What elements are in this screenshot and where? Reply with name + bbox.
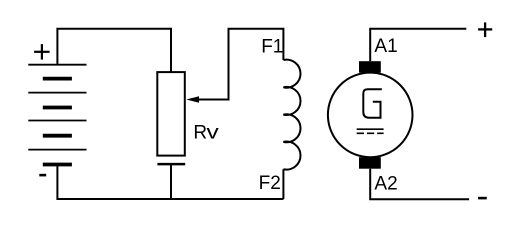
output minus label xyxy=(478,197,487,200)
wire armature A1 to output plus xyxy=(370,29,466,61)
generator G1 body circle xyxy=(328,73,413,158)
svg-text:F1: F1 xyxy=(261,36,283,57)
generator DC symbol solid line xyxy=(357,128,384,130)
generator bottom brush block xyxy=(359,157,381,169)
field winding L1 (shunt field coil) xyxy=(283,60,300,170)
bottom rail wire xyxy=(57,165,283,200)
potentiometer bottom terminal bar xyxy=(157,163,185,166)
generator letter G xyxy=(363,89,382,117)
svg-text:A2: A2 xyxy=(374,174,397,195)
svg-text:A1: A1 xyxy=(374,36,397,57)
wire potentiometer bottom to bottom rail xyxy=(170,164,172,199)
battery minus label xyxy=(39,174,46,177)
potentiometer Rv body xyxy=(157,72,185,156)
wire field winding F2 to bottom rail xyxy=(282,169,284,199)
battery plus label xyxy=(34,44,50,60)
wire wiper to field winding F1 xyxy=(199,29,284,100)
wire battery plus to potentiometer top xyxy=(57,29,171,72)
battery BT1 xyxy=(28,65,86,165)
wiper arrow of Rv xyxy=(186,96,199,103)
svg-text:Rv: Rv xyxy=(193,123,219,144)
svg-text:F2: F2 xyxy=(259,173,281,194)
wire armature A2 to output minus xyxy=(370,169,469,200)
generator top brush block xyxy=(359,61,381,72)
generator DC symbol dashed line xyxy=(357,132,384,134)
output plus label xyxy=(478,22,492,37)
